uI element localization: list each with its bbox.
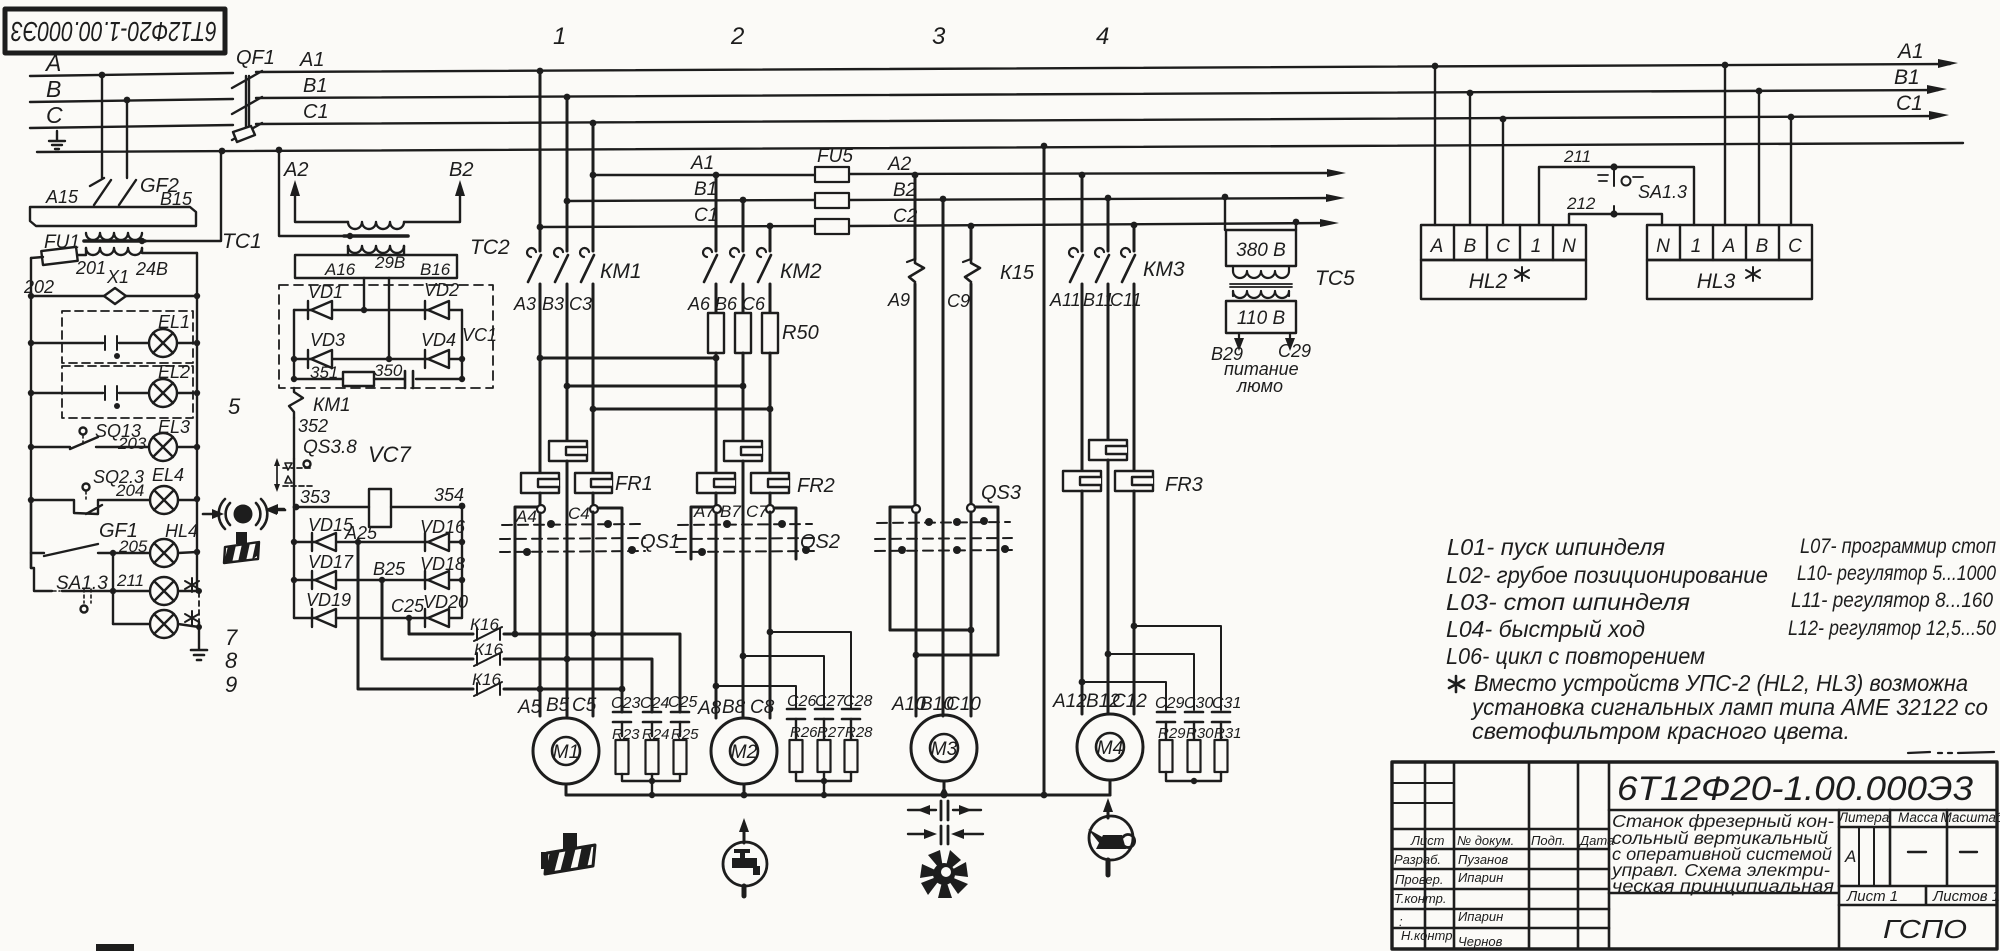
svg-text:L12- регулятор 12,5...50: L12- регулятор 12,5...50 xyxy=(1788,617,1996,640)
sub-bus A1 xyxy=(593,174,815,176)
svg-text:B: B xyxy=(1464,236,1477,257)
rectifier VC1 dashed box xyxy=(279,285,493,388)
wire A down to GF2 xyxy=(101,75,103,178)
svg-text:VD1: VD1 xyxy=(308,282,343,302)
motor M4 xyxy=(1077,714,1143,780)
asterisk lamp row 2 xyxy=(113,624,199,627)
svg-text:R26: R26 xyxy=(790,724,818,741)
svg-text:C4: C4 xyxy=(568,504,590,523)
svg-text:350: 350 xyxy=(374,361,403,380)
svg-text:202: 202 xyxy=(23,277,54,297)
description cell xyxy=(1609,810,1839,949)
svg-text:установка сигнальных ламп т: установка сигнальных ламп типа АМЕ 32122… xyxy=(1470,694,1988,720)
svg-text:C7: C7 xyxy=(746,502,768,521)
svg-text:КМ1: КМ1 xyxy=(313,395,351,416)
svg-text:R28: R28 xyxy=(845,724,873,741)
svg-text:C26: C26 xyxy=(787,693,816,710)
svg-text:C8: C8 xyxy=(750,697,775,718)
svg-text:B1: B1 xyxy=(1894,66,1920,89)
title block frame xyxy=(1392,762,1997,949)
svg-text:L02- грубое позиционирование: L02- грубое позиционирование xyxy=(1446,562,1768,588)
svg-text:TC1: TC1 xyxy=(222,230,262,253)
svg-text:М4: М4 xyxy=(1097,738,1123,759)
arrow B1 xyxy=(1927,85,1947,94)
tie line B xyxy=(567,385,743,388)
svg-text:Н.контр.: Н.контр. xyxy=(1401,928,1456,943)
svg-text:C11: C11 xyxy=(1110,290,1142,310)
svg-text:C: C xyxy=(1496,236,1510,257)
bus B1 xyxy=(256,90,1938,98)
svg-text:КМ1: КМ1 xyxy=(600,260,642,283)
svg-text:С29: С29 xyxy=(1278,341,1311,361)
wire B down to GF2 xyxy=(126,100,128,178)
svg-text:A2: A2 xyxy=(887,154,912,175)
svg-text:A4: A4 xyxy=(515,507,537,526)
arrow C1 xyxy=(1929,111,1949,120)
svg-text:VD3: VD3 xyxy=(310,330,345,350)
svg-text:L07- программир стоп: L07- программир стоп xyxy=(1800,535,1996,558)
svg-text:N: N xyxy=(1656,236,1670,257)
svg-text:Литера: Литера xyxy=(1838,810,1890,825)
svg-text:FR1: FR1 xyxy=(615,473,653,495)
svg-text:Разраб.: Разраб. xyxy=(1394,852,1441,867)
left grid horizontals xyxy=(1392,829,1609,928)
indicator unit HL2 xyxy=(1421,225,1586,260)
svg-text:A11: A11 xyxy=(1049,290,1081,310)
doc number cell xyxy=(1609,809,1997,812)
svg-text:A16: A16 xyxy=(324,260,356,279)
stamp box top-left xyxy=(5,9,225,53)
svg-text:Провер.: Провер. xyxy=(1395,872,1443,887)
wire B25 to K16 xyxy=(382,580,473,659)
buzzer symbol xyxy=(234,505,253,524)
right rail dashed part + ground xyxy=(198,592,200,622)
svg-text:C1: C1 xyxy=(1896,92,1923,115)
svg-text:FR2: FR2 xyxy=(797,475,835,497)
svg-text:Масса: Масса xyxy=(1898,810,1938,825)
wires KM2 down to FR2 xyxy=(716,358,770,473)
wire A16 xyxy=(363,278,365,310)
svg-text:C31: C31 xyxy=(1212,695,1241,712)
motor M2 xyxy=(711,718,777,784)
svg-text:A7: A7 xyxy=(693,502,715,521)
svg-text::: : xyxy=(1399,914,1403,929)
svg-text:А: А xyxy=(1844,847,1856,866)
svg-text:C3: C3 xyxy=(569,294,592,314)
wire N to TC2 core xyxy=(279,150,344,236)
svg-text:211: 211 xyxy=(116,571,144,590)
svg-text:B16: B16 xyxy=(420,260,451,279)
svg-text:B1: B1 xyxy=(303,75,327,97)
bus B xyxy=(30,99,233,102)
wire phase A down (540) xyxy=(539,71,542,251)
svg-text:Вместо устройств УПС-2 (HL2,: Вместо устройств УПС-2 (HL2, HL3) возмож… xyxy=(1474,670,1968,696)
svg-text:B25: B25 xyxy=(373,559,406,579)
svg-text:VD4: VD4 xyxy=(421,330,456,350)
svg-text:Масштаб: Масштаб xyxy=(1940,810,2000,825)
svg-text:Т.контр.: Т.контр. xyxy=(1394,891,1446,906)
svg-text:VC1: VC1 xyxy=(462,325,497,345)
svg-text:Подп.: Подп. xyxy=(1531,833,1566,848)
svg-text:3: 3 xyxy=(932,23,946,50)
K16 line 3 to C23 cap xyxy=(504,688,622,691)
svg-text:B2: B2 xyxy=(449,159,473,181)
svg-text:C23: C23 xyxy=(611,695,640,712)
output arrows B29 C29 xyxy=(1239,333,1290,344)
svg-text:354: 354 xyxy=(434,485,464,505)
svg-text:HL4: HL4 xyxy=(165,521,198,541)
svg-text:TC2: TC2 xyxy=(470,236,510,259)
svg-text:C5: C5 xyxy=(572,695,597,716)
corner dashes above frame xyxy=(1908,752,1994,753)
svg-text:A2: A2 xyxy=(283,159,308,181)
M4 capacitor taps xyxy=(1134,626,1221,710)
svg-text:1: 1 xyxy=(1691,236,1702,257)
svg-text:ческая принципиальная: ческая принципиальная xyxy=(1612,876,1834,896)
svg-text:L11- регулятор 8...160: L11- регулятор 8...160 xyxy=(1791,589,1993,612)
svg-text:светофильтром красного цвета: светофильтром красного цвета. xyxy=(1472,718,1850,744)
svg-text:C1: C1 xyxy=(303,101,329,123)
svg-text:FR3: FR3 xyxy=(1165,474,1203,496)
indicator unit HL3 xyxy=(1647,225,1812,260)
svg-text:R27: R27 xyxy=(817,724,845,741)
svg-text:7: 7 xyxy=(225,625,238,650)
svg-text:5: 5 xyxy=(228,394,241,419)
fan icon under M3 xyxy=(920,850,968,898)
tie line A (KM1-KM2) xyxy=(540,357,716,360)
svg-text:№ докум.: № докум. xyxy=(1457,833,1514,848)
wire A25 to K16 xyxy=(358,542,473,689)
svg-text:C: C xyxy=(46,102,63,128)
svg-text:C24: C24 xyxy=(640,695,669,712)
svg-text:HL2: HL2 xyxy=(1469,270,1508,293)
wire phase B down (567) xyxy=(566,97,569,251)
left grid verticals xyxy=(1425,762,1609,949)
svg-text:X1: X1 xyxy=(106,267,129,287)
flag icon under M1 xyxy=(541,833,595,874)
svg-text:Дата: Дата xyxy=(1578,833,1614,848)
svg-text:B: B xyxy=(46,76,61,102)
svg-text:203: 203 xyxy=(117,434,147,453)
wire secondary right to rail xyxy=(142,248,197,253)
svg-text:B6: B6 xyxy=(715,294,738,314)
motor M1 to common bus xyxy=(566,784,1110,795)
svg-text:QS1: QS1 xyxy=(640,531,680,553)
sub-bus B1 xyxy=(567,200,815,201)
svg-text:B7: B7 xyxy=(720,502,741,521)
svg-text:B1: B1 xyxy=(694,179,717,200)
svg-text:L10- регулятор 5...1000: L10- регулятор 5...1000 xyxy=(1797,562,1996,585)
svg-text:B2: B2 xyxy=(893,180,917,201)
coolant pump icon (faucet) under M2 xyxy=(743,826,746,843)
svg-text:К15: К15 xyxy=(1000,262,1035,284)
svg-text:A8: A8 xyxy=(697,698,722,719)
svg-text:VD19: VD19 xyxy=(306,590,351,610)
ground mark under C xyxy=(49,131,65,149)
svg-text:C25: C25 xyxy=(668,694,697,711)
wire C25 to K16 xyxy=(409,618,473,634)
svg-text:М3: М3 xyxy=(931,739,958,760)
svg-text:C29: C29 xyxy=(1155,695,1184,712)
svg-text:QF1: QF1 xyxy=(236,47,275,69)
wires from buses to HL3 xyxy=(1725,65,1791,225)
svg-text:352: 352 xyxy=(298,416,328,436)
arrow into buzzer (left) xyxy=(203,513,214,516)
bus C xyxy=(30,125,233,128)
svg-text:FU5: FU5 xyxy=(817,146,853,167)
terminal box A16 298 B16 xyxy=(295,255,457,278)
wires FR3 to M4 xyxy=(1082,460,1134,714)
bridge rails xyxy=(294,310,462,379)
bottom-left stray mark xyxy=(96,944,134,951)
sub-bus C1 xyxy=(540,226,815,227)
svg-text:Листов 1: Листов 1 xyxy=(1932,888,2000,905)
wire B16 xyxy=(388,278,390,359)
svg-text:L06- цикл с повторением: L06- цикл с повторением xyxy=(1446,643,1705,669)
neutral drop wire to motor bus xyxy=(1043,146,1046,795)
svg-text:6Т12Ф20-1.00.000Э3: 6Т12Ф20-1.00.000Э3 xyxy=(11,16,217,47)
svg-text:A9: A9 xyxy=(887,290,910,310)
svg-text:VD17: VD17 xyxy=(308,552,354,572)
svg-text:HL3: HL3 xyxy=(1697,270,1736,293)
svg-text:C28: C28 xyxy=(843,693,872,710)
list row xyxy=(1839,886,1997,905)
svg-text:C10: C10 xyxy=(946,694,981,715)
svg-text:КМ3: КМ3 xyxy=(1143,258,1185,281)
svg-text:C27: C27 xyxy=(815,693,845,710)
right rail xyxy=(196,253,198,592)
svg-text:B5: B5 xyxy=(546,695,570,716)
svg-text:VC7: VC7 xyxy=(368,442,412,467)
wire TC1 core to N bus xyxy=(142,152,221,241)
svg-text:204: 204 xyxy=(115,481,144,500)
svg-text:A3: A3 xyxy=(513,294,536,314)
svg-text:A1: A1 xyxy=(299,49,324,71)
svg-text:B3: B3 xyxy=(542,294,564,314)
svg-text:C9: C9 xyxy=(947,291,970,311)
svg-text:212: 212 xyxy=(1566,194,1596,213)
svg-text:Лист 1: Лист 1 xyxy=(1846,888,1898,905)
arrow to buzzer from VC7 xyxy=(274,508,284,511)
svg-text:A: A xyxy=(1722,236,1736,257)
svg-text:211: 211 xyxy=(1563,147,1591,166)
svg-text:380 В: 380 В xyxy=(1236,240,1286,261)
svg-text:1: 1 xyxy=(1531,236,1542,257)
svg-text:L04- быстрый ход: L04- быстрый ход xyxy=(1446,616,1645,642)
asterisk marks xyxy=(185,578,199,592)
svg-text:C6: C6 xyxy=(742,294,766,314)
svg-text:A6: A6 xyxy=(687,294,711,314)
svg-text:A5: A5 xyxy=(517,697,542,718)
svg-text:N: N xyxy=(1562,236,1576,257)
svg-text:C25: C25 xyxy=(391,596,425,616)
svg-text:КМ2: КМ2 xyxy=(780,260,822,283)
svg-text:A1: A1 xyxy=(1896,40,1924,63)
svg-text:QS3.8: QS3.8 xyxy=(303,437,357,458)
motor M1 xyxy=(533,718,599,784)
K16 line 1 to C25 cap xyxy=(504,634,680,712)
bus N xyxy=(37,143,1963,152)
svg-text:1: 1 xyxy=(553,23,566,50)
svg-text:Ипарин: Ипарин xyxy=(1458,909,1503,924)
svg-text:8: 8 xyxy=(225,648,238,673)
svg-text:VD16: VD16 xyxy=(420,517,466,537)
litera/massa/masshtab cells xyxy=(1839,810,1997,886)
svg-text:A15: A15 xyxy=(45,187,79,207)
tie line C xyxy=(593,408,770,411)
dashed group box 1 xyxy=(62,311,193,363)
svg-text:Чернов: Чернов xyxy=(1458,934,1503,949)
svg-text:L01- пуск шпинделя: L01- пуск шпинделя xyxy=(1447,534,1665,560)
svg-text:C: C xyxy=(1788,236,1802,257)
svg-text:VD2: VD2 xyxy=(424,280,459,300)
svg-text:6Т12Ф20-1.00.000Э3: 6Т12Ф20-1.00.000Э3 xyxy=(1617,770,1973,808)
svg-text:A25: A25 xyxy=(344,523,378,543)
left table texts xyxy=(1394,833,1614,949)
flag icon (brand mark) xyxy=(224,532,259,563)
bus A1 xyxy=(256,64,1950,72)
svg-text:A12: A12 xyxy=(1052,691,1087,712)
bus A xyxy=(30,73,233,76)
svg-text:201: 201 xyxy=(75,258,106,278)
wires from buses to HL2 xyxy=(1435,66,1503,225)
node dots on buses xyxy=(99,72,106,79)
svg-text:C12: C12 xyxy=(1112,691,1147,712)
lube pump icon under M4 xyxy=(1107,804,1110,818)
QS1 aux stubs down xyxy=(515,559,622,712)
svg-text:24В: 24В xyxy=(135,259,168,279)
svg-text:Ипарин: Ипарин xyxy=(1458,870,1503,885)
svg-text:VD18: VD18 xyxy=(420,554,465,574)
dashed group box 2 xyxy=(62,366,193,418)
motor M3 xyxy=(911,715,977,781)
svg-text:SA1.3: SA1.3 xyxy=(1638,182,1687,202)
svg-text:9: 9 xyxy=(225,672,237,697)
svg-text:TC5: TC5 xyxy=(1315,267,1355,290)
ground symbol xyxy=(191,650,207,660)
svg-text:М2: М2 xyxy=(731,742,758,763)
M2 capacitor taps xyxy=(770,632,851,709)
svg-text:A: A xyxy=(44,50,61,76)
bus C1 xyxy=(256,116,1940,124)
svg-text:110 В: 110 В xyxy=(1237,308,1286,329)
left rail xyxy=(30,258,32,568)
svg-text:L03- стоп шпинделя: L03- стоп шпинделя xyxy=(1446,589,1690,615)
K16 line 2 to C24 cap xyxy=(504,659,652,712)
svg-text:QS3: QS3 xyxy=(981,482,1021,504)
svg-text:353: 353 xyxy=(300,487,330,507)
svg-text:2: 2 xyxy=(730,23,744,50)
svg-text:29В: 29В xyxy=(374,253,405,272)
svg-text:люмо: люмо xyxy=(1236,376,1283,396)
svg-text:R50: R50 xyxy=(782,322,819,344)
svg-text:Лист: Лист xyxy=(1410,833,1445,848)
connector X1 row xyxy=(31,295,197,297)
svg-text:EL4: EL4 xyxy=(152,465,184,485)
wire phase C down (593) xyxy=(592,123,595,251)
svg-text:М1: М1 xyxy=(553,742,579,763)
svg-text:ГСПО: ГСПО xyxy=(1883,914,1967,944)
svg-text:C30: C30 xyxy=(1184,695,1213,712)
resistor bottoms to bus xyxy=(622,774,680,795)
svg-text:A1: A1 xyxy=(690,153,714,174)
arrow A1 xyxy=(1938,59,1958,68)
arrow into buzzer (right) xyxy=(275,509,285,512)
coupling mark at M3 xyxy=(908,809,981,811)
svg-text:Пузанов: Пузанов xyxy=(1458,852,1508,867)
svg-text:B: B xyxy=(1756,236,1769,257)
svg-text:4: 4 xyxy=(1096,23,1109,50)
svg-text:A: A xyxy=(1430,236,1444,257)
GS3 crossover wiring xyxy=(916,507,971,716)
svg-text:B8: B8 xyxy=(722,697,746,718)
